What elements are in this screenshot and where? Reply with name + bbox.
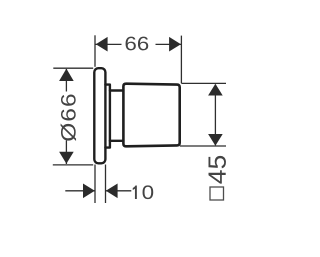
label Ø66	[61, 94, 76, 140]
dim Ø66: extension lines	[53, 67, 93, 69]
neck top	[110, 89, 124, 91]
dimensions	[53, 35, 226, 203]
dim Ø66 down arrow	[59, 152, 74, 164]
dim 66 left arrow	[96, 37, 108, 52]
dim 10: extension lines	[94, 165, 96, 204]
dim 45 up arrow	[208, 84, 223, 96]
dim 66 right arrow	[169, 37, 181, 52]
collar	[105, 85, 110, 148]
escutcheon plate (side view)	[94, 68, 105, 163]
label 66	[126, 37, 149, 51]
dim 10 left-pointing arrow	[106, 184, 118, 199]
product outline	[94, 68, 179, 163]
label 45	[209, 156, 226, 184]
label 10 digit 0	[143, 185, 154, 199]
label 10 digit 1	[133, 185, 137, 199]
dim 10 right-pointing arrow	[83, 184, 95, 199]
knob	[123, 84, 179, 147]
label 45 square symbol	[210, 187, 224, 200]
dim 10: dimension line	[65, 190, 94, 192]
dim 45: dimension line	[214, 85, 216, 146]
dim 66: extension lines	[94, 35, 96, 67]
dim 45 down arrow	[208, 134, 223, 146]
dim Ø66 up arrow	[59, 69, 74, 81]
neck bottom	[110, 140, 124, 142]
dim 45: extension lines	[181, 82, 226, 84]
dim Ø66: dimension line	[65, 69, 67, 92]
arrowheads	[59, 37, 223, 198]
dim 66: dimension line	[96, 43, 122, 45]
